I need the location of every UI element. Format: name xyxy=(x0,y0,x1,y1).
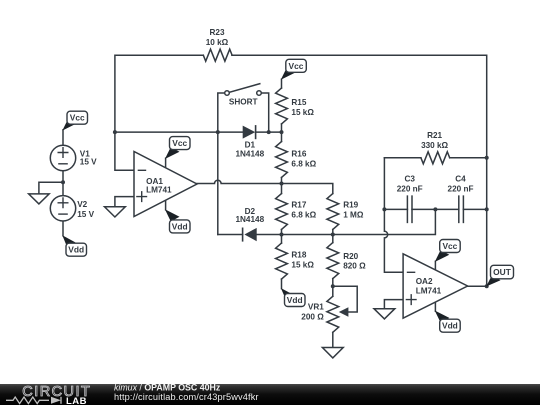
svg-text:1N4148: 1N4148 xyxy=(235,215,264,224)
svg-text:R19: R19 xyxy=(343,200,358,209)
svg-text:R15: R15 xyxy=(291,98,306,107)
svg-text:220 nF: 220 nF xyxy=(448,185,474,194)
svg-text:200 Ω: 200 Ω xyxy=(301,313,324,322)
svg-text:Vcc: Vcc xyxy=(289,61,304,71)
svg-text:C3: C3 xyxy=(404,174,415,183)
svg-text:SHORT: SHORT xyxy=(229,98,258,107)
svg-text:V2: V2 xyxy=(77,200,87,209)
svg-text:LM741: LM741 xyxy=(146,185,172,194)
svg-text:R17: R17 xyxy=(291,200,306,209)
svg-text:C4: C4 xyxy=(455,174,466,183)
svg-text:10 kΩ: 10 kΩ xyxy=(206,38,229,47)
svg-text:15 V: 15 V xyxy=(80,158,97,167)
svg-text:LAB: LAB xyxy=(66,396,87,405)
svg-text:Vdd: Vdd xyxy=(442,321,458,331)
svg-text:D1: D1 xyxy=(245,141,256,150)
svg-text:Vcc: Vcc xyxy=(172,138,187,148)
svg-text:1 MΩ: 1 MΩ xyxy=(343,210,364,219)
svg-text:VR1: VR1 xyxy=(308,303,324,312)
svg-text:LM741: LM741 xyxy=(416,286,442,295)
svg-text:OUT: OUT xyxy=(493,267,512,277)
svg-text:R16: R16 xyxy=(291,150,306,159)
svg-text:6.8 kΩ: 6.8 kΩ xyxy=(291,210,316,219)
svg-text:Vcc: Vcc xyxy=(442,241,457,251)
svg-text:1N4148: 1N4148 xyxy=(235,150,264,159)
svg-text:6.8 kΩ: 6.8 kΩ xyxy=(291,159,316,168)
svg-text:820 Ω: 820 Ω xyxy=(343,261,366,270)
svg-text:15 kΩ: 15 kΩ xyxy=(291,261,314,270)
svg-text:R23: R23 xyxy=(209,28,224,37)
svg-text:http://circuitlab.com/cr43pr5w: http://circuitlab.com/cr43pr5wv4fkr xyxy=(114,392,259,402)
svg-text:R21: R21 xyxy=(427,131,442,140)
svg-text:R20: R20 xyxy=(343,252,358,261)
svg-text:kimux / OPAMP OSC 40Hz: kimux / OPAMP OSC 40Hz xyxy=(114,383,221,393)
svg-text:Vdd: Vdd xyxy=(172,221,188,231)
svg-text:15 kΩ: 15 kΩ xyxy=(291,108,314,117)
svg-text:R18: R18 xyxy=(291,251,306,260)
svg-text:330 kΩ: 330 kΩ xyxy=(421,141,448,150)
svg-text:15 V: 15 V xyxy=(77,210,94,219)
svg-text:Vcc: Vcc xyxy=(70,113,85,123)
svg-text:OA2: OA2 xyxy=(416,277,433,286)
svg-text:Vdd: Vdd xyxy=(68,245,84,255)
svg-text:Vdd: Vdd xyxy=(287,295,303,305)
svg-text:220 nF: 220 nF xyxy=(397,185,423,194)
